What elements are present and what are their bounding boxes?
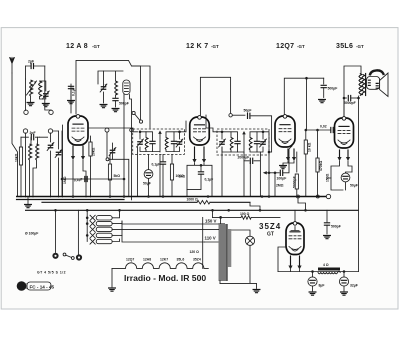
- wire V2 cath to bus: [187, 163, 212, 197]
- switch S1 wafer row4: [86, 234, 89, 237]
- capacitor 2000pF det: [250, 158, 252, 163]
- svg-text:0,1µF: 0,1µF: [71, 87, 75, 96]
- pilot lamp: [245, 236, 254, 245]
- svg-text:10kΩ: 10kΩ: [15, 153, 19, 162]
- potentiometer wiper arrow: [266, 172, 269, 174]
- wire lamp feed: [231, 230, 250, 236]
- wire L3 L4 bottoms: [30, 160, 37, 197]
- terminal sw2: [23, 129, 27, 133]
- inductor L3 osc grid: [29, 144, 32, 160]
- wire row3 to tap 110V: [122, 235, 205, 242]
- wire V4 grid top riser: [344, 66, 361, 116]
- wire osc top: [31, 137, 48, 144]
- wire V5 heater side: [278, 247, 287, 272]
- trimmer T2 secondary: [260, 142, 266, 144]
- wire lamp return: [220, 245, 257, 288]
- wire V1 bias node: [62, 131, 124, 197]
- svg-text:12Q7: 12Q7: [276, 43, 294, 50]
- switch mains toggle: [63, 253, 66, 256]
- svg-text:2pF: 2pF: [30, 131, 36, 135]
- terminal bus end: [327, 177, 331, 179]
- capacitor 0,1uF bias: [85, 176, 87, 181]
- rail to bottom right: [250, 203, 260, 210]
- wire V2 cathode drops: [194, 147, 196, 161]
- svg-text:0,02: 0,02: [320, 125, 327, 129]
- svg-text:10 kΩ: 10 kΩ: [307, 142, 311, 152]
- wire V1 cath to bus: [73, 160, 86, 197]
- svg-text:GT: GT: [267, 232, 274, 238]
- capacitor T1 secondary tune: [171, 141, 176, 143]
- resistor 2M grid V3: [274, 173, 276, 197]
- svg-text:50µF: 50µF: [143, 182, 151, 186]
- junction T2 out: [262, 131, 265, 134]
- output transformer T3 primary: [359, 74, 362, 96]
- wire L2 bottom: [40, 97, 45, 100]
- svg-text:FC - 14 - 45: FC - 14 - 45: [30, 284, 55, 289]
- tube V3 12Q7 envelope: [275, 116, 295, 147]
- tube V2 12K7 envelope: [190, 117, 210, 145]
- trimmer C-osc1: [50, 133, 52, 142]
- wire V2 top to T2: [206, 115, 231, 152]
- svg-text:500pF: 500pF: [328, 87, 338, 91]
- wire V1 grid cap riser: [76, 60, 141, 119]
- bus junction dots: [72, 195, 75, 198]
- wire V3 cathode drops: [287, 149, 289, 159]
- svg-text:Irradio - Mod. IR 500: Irradio - Mod. IR 500: [124, 273, 206, 283]
- terminal V2 out: [229, 114, 232, 117]
- junction tone cap: [343, 97, 346, 100]
- svg-text:35L6: 35L6: [177, 258, 185, 262]
- resistor 5k AVC: [109, 155, 111, 164]
- wire gang risers: [53, 125, 63, 197]
- svg-text:5000pF: 5000pF: [292, 176, 296, 188]
- ring junction osc: [106, 158, 109, 161]
- svg-text:12 A 8: 12 A 8: [66, 43, 88, 50]
- switch wave-change blade: [135, 114, 140, 120]
- wire V1 cathode drops: [72, 146, 74, 158]
- wire B+ main riser: [358, 96, 360, 272]
- svg-text:32µF: 32µF: [350, 284, 358, 288]
- wire V5 cathode drops: [290, 256, 292, 268]
- inductor L5 RF choke: [115, 81, 118, 95]
- output transformer T3 core: [365, 74, 367, 96]
- wire row4 to tap 150V: [122, 223, 219, 225]
- arrow T2 slug: [243, 133, 245, 153]
- wire switch common riser: [86, 210, 88, 241]
- svg-text:-GT: -GT: [297, 44, 305, 49]
- trimmer T1 primary: [137, 142, 143, 144]
- wire L1 bottom: [30, 96, 32, 102]
- inductor L6 osc coupling: [123, 80, 130, 95]
- svg-text:0,1µF: 0,1µF: [152, 163, 161, 167]
- svg-text:12A8: 12A8: [143, 258, 151, 262]
- svg-text:-GT: -GT: [92, 44, 100, 49]
- wire bus to rail step: [298, 198, 306, 210]
- tube V5 35Z4 envelope: [286, 223, 304, 255]
- trimmer C RF: [101, 87, 107, 89]
- ring junction L6: [130, 128, 134, 132]
- wire V2 plate loop: [200, 77, 230, 115]
- junction mains rail: [259, 209, 262, 212]
- junction T1 in: [139, 131, 142, 134]
- capacitor 50pF coupling: [232, 114, 245, 116]
- terminal gang A: [24, 110, 28, 114]
- capacitor 2pF osc: [21, 136, 39, 138]
- wire det node: [268, 152, 270, 197]
- svg-text:1000 Ω: 1000 Ω: [187, 198, 198, 202]
- electrolytic 8uF filter: [312, 272, 314, 278]
- capacitor T2 primary tune: [235, 141, 240, 143]
- resistor 10k: [305, 130, 307, 140]
- electrolytic 32uF filter: [343, 272, 345, 278]
- svg-text:GT 4 5/5 S 1/2: GT 4 5/5 S 1/2: [37, 271, 66, 275]
- ground bus left: [27, 197, 29, 205]
- resistor 100ohm mains: [213, 216, 242, 218]
- terminal gang C: [105, 128, 109, 132]
- tube V4 35L6 envelope: [335, 118, 354, 148]
- terminal gang B: [49, 110, 53, 114]
- svg-text:2000pF: 2000pF: [238, 156, 250, 160]
- wire T2 slug drop: [243, 153, 245, 197]
- wire T2 to detector: [263, 132, 272, 152]
- resistor 100ohm T1: [171, 154, 173, 164]
- capacitor T1 primary tune: [150, 141, 155, 143]
- wire T1 shield drop: [137, 147, 139, 197]
- IF transformer T2 dashed box: [217, 129, 269, 155]
- terminal pad A: [132, 111, 135, 114]
- autotransformer winding primary: [219, 224, 226, 280]
- svg-text:50pF: 50pF: [244, 109, 252, 113]
- speaker magnet box: [367, 77, 380, 90]
- svg-text:35Z4: 35Z4: [259, 222, 281, 231]
- antenna: [10, 58, 15, 74]
- ground L1: [27, 103, 34, 106]
- wire L6 ends down: [124, 94, 132, 200]
- svg-text:5kΩ: 5kΩ: [114, 174, 121, 178]
- switch S1 wafer row2: [86, 222, 89, 225]
- terminal mains plug B: [76, 254, 82, 260]
- inductor T1 secondary: [165, 138, 168, 150]
- arrow L1 tuning slug: [27, 81, 37, 95]
- bus line 2 ground rail: [17, 200, 251, 203]
- junction V3 plate: [305, 77, 308, 80]
- wire V4 cathode loop: [331, 161, 352, 190]
- inductor L2 antenna secondary: [39, 81, 42, 97]
- wire antenna coil top loop: [26, 66, 45, 81]
- capacitor 0,1uF under T1: [162, 154, 164, 161]
- capacitor 100pF AF: [269, 172, 279, 174]
- svg-text:-GT: -GT: [356, 44, 364, 49]
- svg-text:12 K 7: 12 K 7: [186, 43, 208, 50]
- speaker horn bracket: [370, 70, 384, 75]
- wire V3 plate down to V4 grid: [307, 78, 331, 130]
- electrolytic 50uF cathode V4: [341, 173, 350, 182]
- wire mains rail long: [25, 209, 359, 211]
- tube V1 12A8 envelope: [68, 116, 88, 145]
- trimmer osc padder: [112, 143, 114, 149]
- svg-text:20kΩ: 20kΩ: [92, 147, 96, 156]
- wire heater right riser: [202, 217, 204, 268]
- wire switch right riser: [120, 210, 123, 235]
- wire V4 cathode drops: [339, 150, 341, 159]
- svg-text:1kΩ: 1kΩ: [179, 175, 186, 179]
- wire mains drop to transformer: [212, 210, 214, 217]
- svg-text:2MΩ: 2MΩ: [276, 184, 284, 188]
- ground heater chain: [109, 288, 116, 291]
- junction T2 in: [221, 131, 224, 134]
- svg-text:-GT: -GT: [211, 44, 219, 49]
- wire heater left to ground: [111, 268, 113, 287]
- svg-text:12K7: 12K7: [160, 258, 168, 262]
- capacitor bypass V3 cathode: [296, 152, 298, 172]
- bus line 1 AVC: [16, 196, 326, 198]
- wire osc padder node: [109, 159, 129, 196]
- wire V3 plate loop: [284, 78, 323, 114]
- inductor T1 primary: [145, 138, 148, 150]
- heater chain filaments: [112, 263, 208, 269]
- ground V3 cathode: [283, 161, 294, 165]
- trimmer T1 secondary: [177, 142, 183, 144]
- switch S1 wafer row3: [90, 227, 95, 232]
- svg-text:50µF: 50µF: [350, 184, 358, 188]
- wire V5 top cap: [294, 210, 296, 221]
- capacitor 0,1uF left of V1: [70, 84, 72, 113]
- arrow T1 slug: [159, 132, 161, 152]
- bus ring junctions: [297, 195, 300, 198]
- wire T2 shield drop: [221, 147, 223, 197]
- autotransformer core: [226, 224, 227, 281]
- capacitor 0,1uF cathode V2: [200, 165, 202, 171]
- svg-text:100pF: 100pF: [277, 177, 287, 181]
- resistor 10k osc: [20, 137, 22, 147]
- inductor L1 antenna primary: [30, 80, 33, 96]
- autotransformer taps: [205, 217, 221, 283]
- junction T1 out: [178, 131, 181, 134]
- ground trimmer C RF: [100, 105, 107, 108]
- svg-text:0,1µF: 0,1µF: [205, 178, 214, 182]
- capacitor T2 secondary tune: [254, 141, 259, 143]
- autotransformer winding secondary: [228, 230, 231, 266]
- svg-text:500pF: 500pF: [331, 225, 341, 229]
- wire antenna down-lead: [12, 73, 18, 197]
- ground 32uF: [341, 292, 348, 295]
- switch S1 wafer row5: [90, 239, 95, 244]
- svg-text:35L6: 35L6: [336, 43, 353, 50]
- capacitor 5000pF tone: [344, 97, 347, 99]
- capacitor 500pF under L5: [115, 95, 117, 98]
- svg-text:5000pF: 5000pF: [344, 101, 356, 105]
- svg-text:100 Ω: 100 Ω: [240, 212, 250, 216]
- ground cap plate V3: [319, 100, 326, 103]
- ground L5: [112, 109, 119, 112]
- wire V4 plate down: [343, 98, 345, 116]
- inductor T2 primary: [230, 138, 233, 151]
- resistor 470k grid V4: [317, 130, 319, 158]
- wire T1 slug drop: [159, 154, 161, 196]
- wire mains left drop: [55, 210, 57, 252]
- svg-text:110 V: 110 V: [205, 235, 216, 240]
- svg-text:Ø 100µF: Ø 100µF: [25, 232, 38, 236]
- switch S1 wafer row1: [86, 217, 89, 220]
- speaker cone: [380, 73, 388, 97]
- resistor 1000ohm bus: [197, 201, 210, 205]
- capacitor 500pF rect: [326, 210, 328, 222]
- svg-text:1MΩ: 1MΩ: [63, 176, 67, 184]
- svg-text:12Q7: 12Q7: [126, 258, 134, 262]
- trimmer C-ant: [45, 97, 47, 99]
- electrolytic 50uF under T1: [148, 154, 150, 169]
- capacitor 2pF: [26, 65, 45, 67]
- capacitor 500pF plate V3: [323, 78, 325, 84]
- wire gang link left: [26, 79, 52, 111]
- wire T1 to V2 grid: [180, 121, 187, 132]
- inductor T2 secondary: [249, 138, 252, 151]
- IF transformer T1 dashed box: [133, 129, 185, 154]
- ground cap left V1: [68, 101, 75, 104]
- svg-text:2pF: 2pF: [28, 60, 34, 64]
- svg-text:120 Ω: 120 Ω: [190, 250, 200, 254]
- ground 8uF: [309, 292, 316, 295]
- logo Geloso box: [17, 281, 27, 291]
- ground lamp: [253, 290, 260, 293]
- wire mains right drop: [77, 210, 79, 254]
- wire rectifier output: [278, 271, 359, 273]
- terminal mains plug A: [52, 253, 58, 259]
- wire V1 inner loop: [98, 66, 150, 128]
- capacitor 0,02 coupling V4: [331, 127, 333, 132]
- trimmer C-osc2 padder: [58, 131, 60, 149]
- svg-text:8µF: 8µF: [319, 284, 325, 288]
- svg-text:35Z4: 35Z4: [193, 258, 201, 262]
- svg-text:470kΩ: 470kΩ: [319, 160, 323, 171]
- wire V1 plate to T1: [88, 128, 146, 152]
- ground rect cap: [324, 236, 331, 239]
- output transformer T3 secondary: [362, 75, 365, 96]
- svg-text:FE: FE: [18, 284, 27, 291]
- trimmer T2 primary: [219, 142, 225, 144]
- resistor 20k V1: [90, 136, 92, 142]
- terminal pad B: [139, 120, 142, 123]
- svg-text:4 Ω: 4 Ω: [323, 263, 329, 267]
- svg-text:150 V: 150 V: [205, 219, 217, 224]
- ground trimmer C-ant: [42, 104, 49, 107]
- inductor L4 osc plate: [36, 144, 39, 160]
